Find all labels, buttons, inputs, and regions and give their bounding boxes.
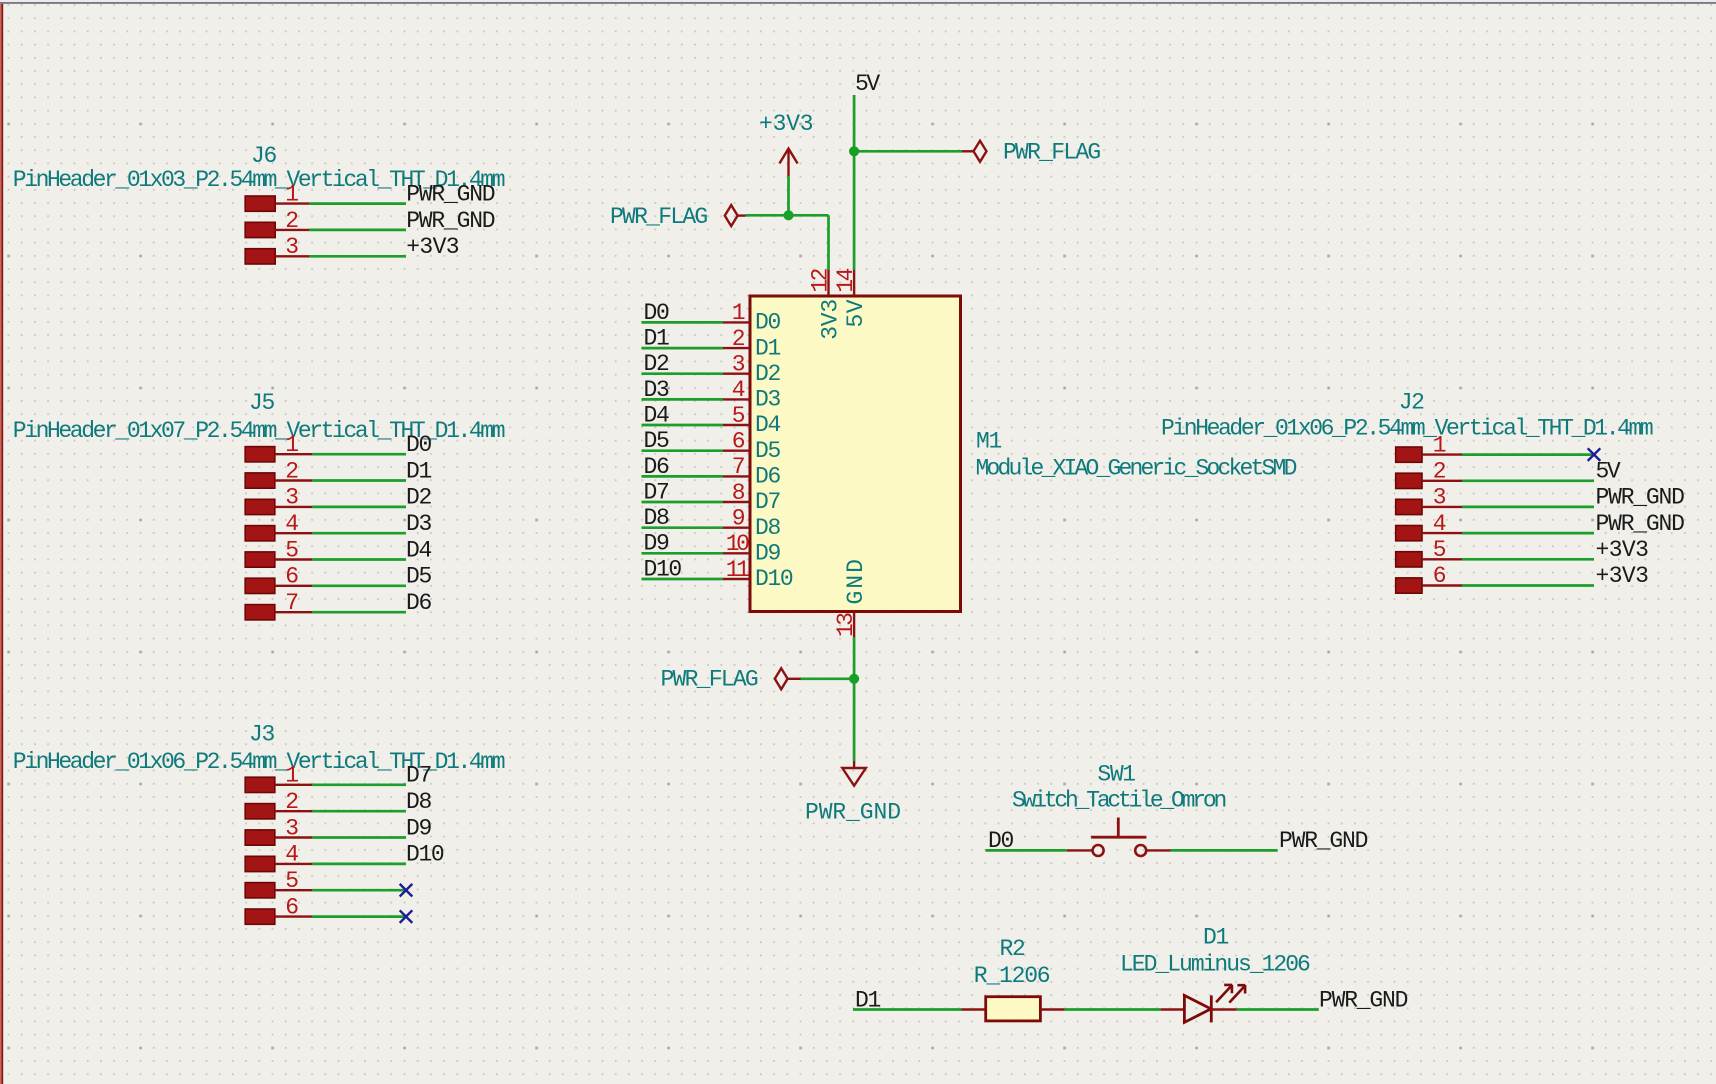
no-connect X on J3 pin 5 [400,884,413,897]
J6 pin 2 body pad [245,222,275,237]
svg-text:+3V3: +3V3 [1596,563,1649,589]
wire +3V3 to PWR_FLAG [746,214,789,217]
svg-text:2: 2 [285,789,298,815]
wire from J3 pin 5 [312,889,406,892]
sheet top border line [0,2,1716,4]
svg-text:4: 4 [285,511,298,537]
svg-text:13: 13 [833,613,859,637]
M1 pin 6 [723,450,750,452]
+3V3 symbol stem [787,149,789,176]
wire D1 to M1 pin 2 [642,347,724,350]
wire D10 to M1 pin 11 [642,578,724,581]
J5 pin 4 body pad [245,526,275,541]
J5 pin 6 stub [275,585,312,587]
J2 pin 4 stub [1422,532,1462,534]
svg-text:5: 5 [1433,537,1446,563]
wire from J6 pin 2 [309,229,406,232]
PWR_FLAG pin (right) [962,150,974,152]
wire 5V vertical to M1 pin 14 [853,95,856,270]
svg-text:D9: D9 [406,815,431,841]
LED D1 [1065,925,1408,1023]
svg-text:D0: D0 [755,310,780,336]
M1 pin 4 [723,398,750,400]
J6 pin 2 stub [275,229,309,231]
J5 pin 2 body pad [245,473,275,488]
svg-text:3: 3 [1433,485,1446,511]
svg-text:6: 6 [285,564,298,590]
J6 pin 3 stub [275,255,309,257]
M1 pin 11 [723,578,750,580]
wire from J3 pin 2 [312,810,406,813]
J6 pin 3 body pad [245,249,275,264]
D1 triangle [1184,995,1211,1022]
module M1 Module_XIAO_Generic_SocketSMD body [750,296,961,612]
junction on GND net [849,674,859,684]
connector J3 [13,722,505,925]
junction on 5V net [849,146,859,156]
SW1 pin 2 [1146,849,1170,851]
D1 cathode bar [1210,995,1213,1022]
wire from J2 pin 5 [1462,558,1594,561]
svg-text:3: 3 [732,352,745,378]
wire down into M1 pin 12 [827,215,830,270]
svg-text:PinHeader_01x06_P2.54mm_Vertic: PinHeader_01x06_P2.54mm_Vertical_THT_D1.… [13,749,505,775]
sheet top outer margin [0,0,1716,2]
J2 pin 6 body pad [1396,578,1422,593]
wire GND from M1 pin 13 [853,637,856,679]
wire from J3 pin 4 [312,863,406,866]
J2 pin 1 body pad [1396,447,1422,462]
M1 pin 12 [827,270,829,296]
resistor R2 [853,936,1065,1021]
svg-text:PWR_GND: PWR_GND [1279,828,1368,854]
svg-text:D0: D0 [406,432,431,458]
M1 pin 10 [723,552,750,554]
ground symbol PWR_GND [842,768,866,786]
svg-text:8: 8 [732,480,745,506]
svg-text:J5: J5 [249,390,274,416]
M1 pin 5 [723,424,750,426]
wire from J5 pin 6 [312,584,406,587]
M1 pin 7 [723,475,750,477]
J5 pin 1 stub [275,453,312,455]
svg-text:D1: D1 [755,335,780,361]
J3 pin 1 body pad [245,777,275,792]
J3 pin 4 stub [275,863,312,865]
svg-text:1: 1 [732,300,745,326]
J2 pin 1 stub [1422,453,1462,455]
M1 pin 1 [723,321,750,323]
svg-text:5: 5 [732,403,745,429]
J3 pin 2 stub [275,810,312,812]
svg-text:6: 6 [732,429,745,455]
svg-text:2: 2 [285,458,298,484]
J3 pin 2 body pad [245,804,275,819]
svg-text:4: 4 [1433,511,1446,537]
svg-text:5: 5 [285,537,298,563]
svg-text:PWR_GND: PWR_GND [406,181,495,207]
power flag PWR_FLAG (5V net) diamond [974,141,987,162]
svg-text:+3V3: +3V3 [759,111,813,137]
J2 pin 5 body pad [1396,552,1422,567]
svg-text:J2: J2 [1399,390,1424,416]
svg-text:7: 7 [285,590,297,616]
svg-text:5V: 5V [1596,459,1621,485]
wire from J5 pin 4 [312,532,406,535]
svg-text:9: 9 [732,506,745,532]
wire from J2 pin 2 [1462,479,1594,482]
svg-text:D3: D3 [755,387,780,413]
wire SW1 to PWR_GND [1171,849,1278,852]
svg-text:4: 4 [285,842,298,868]
svg-text:11: 11 [726,557,749,583]
M1 pin 3 [723,373,750,375]
wire 5V to PWR_FLAG [854,150,962,153]
M1 pin 2 [723,347,750,349]
svg-text:D5: D5 [406,564,431,590]
wire D2 to M1 pin 3 [642,372,724,375]
svg-text:PWR_GND: PWR_GND [805,800,901,826]
svg-text:PinHeader_01x06_P2.54mm_Vertic: PinHeader_01x06_P2.54mm_Vertical_THT_D1.… [1161,416,1653,442]
junction on +3V3 net [783,210,793,220]
svg-text:PWR_FLAG: PWR_FLAG [610,204,707,230]
svg-text:3: 3 [285,815,298,841]
R2 pin 1 [962,1008,986,1010]
svg-text:D7: D7 [406,763,431,789]
J3 pin 6 body pad [245,909,275,924]
D1 emission arrow 1 [1216,985,1232,1003]
svg-text:2: 2 [285,208,298,234]
D1 anode pin [1161,1008,1185,1010]
svg-text:M1: M1 [976,429,1001,455]
svg-text:5V: 5V [855,71,880,97]
wire from J6 pin 3 [309,255,406,258]
svg-text:D5: D5 [755,438,780,464]
J6 pin 1 stub [275,202,309,204]
J3 pin 3 stub [275,836,312,838]
wire D6 to M1 pin 7 [642,475,724,478]
svg-text:PWR_FLAG: PWR_FLAG [1003,140,1100,166]
svg-text:D8: D8 [406,789,431,815]
svg-text:D1: D1 [1203,925,1228,951]
svg-text:5: 5 [285,868,298,894]
svg-text:2: 2 [1433,459,1446,485]
svg-text:4: 4 [732,377,745,403]
wire D7 to M1 pin 8 [642,501,724,504]
M1 pin 14 [853,270,855,296]
R2 body [986,997,1041,1021]
svg-text:D9: D9 [755,541,780,567]
svg-text:D3: D3 [406,511,431,537]
wire from J5 pin 1 [312,453,406,456]
J2 pin 6 stub [1422,584,1462,586]
svg-text:6: 6 [285,894,298,920]
connector J2 [1161,390,1653,594]
J5 pin 5 body pad [245,552,275,567]
svg-text:10: 10 [726,531,749,557]
PWR_FLAG pin (top left) [738,214,746,216]
wire from J2 pin 6 [1462,584,1594,587]
J3 pin 5 stub [275,889,312,891]
wire D1 to PWR_GND [1237,1008,1319,1011]
svg-text:PWR_GND: PWR_GND [406,208,495,234]
svg-text:SW1: SW1 [1097,762,1135,788]
M1 pin 9 [723,527,750,529]
wire D1 to R2 [853,1008,962,1011]
wire D9 to M1 pin 10 [642,552,724,555]
svg-text:R_1206: R_1206 [974,963,1050,989]
wire D8 to M1 pin 9 [642,526,724,529]
J3 pin 5 body pad [245,883,275,898]
M1 pin 8 [723,501,750,503]
wire GND to PWR_FLAG [801,677,855,680]
svg-text:D10: D10 [755,566,793,592]
svg-text:3V3: 3V3 [817,299,843,340]
J6 pin 1 body pad [245,196,275,211]
J3 pin 3 body pad [245,830,275,845]
wire from J6 pin 1 [309,202,406,205]
J5 pin 1 body pad [245,447,275,462]
SW1 actuator bar [1091,836,1146,839]
switch SW1 [986,762,1368,857]
svg-text:D6: D6 [755,464,780,490]
D1 emission arrow 2 [1229,985,1245,1003]
J5 pin 2 stub [275,479,312,481]
svg-text:3: 3 [285,234,298,260]
wire from J2 pin 1 [1462,453,1594,456]
M1 pin 13 [853,612,855,638]
J3 pin 6 stub [275,915,312,917]
SW1 pin 1 [1067,849,1092,851]
SW1 contact circle 2 [1135,845,1146,856]
wire D4 to M1 pin 5 [642,424,724,427]
wire R2 to D1 [1065,1008,1161,1011]
wire from J5 pin 7 [312,611,406,614]
ground symbol stem [853,761,855,768]
connector J6 [13,143,505,264]
SW1 contact circle 1 [1093,845,1104,856]
wire D5 to M1 pin 6 [642,449,724,452]
svg-text:PWR_GND: PWR_GND [1596,485,1685,511]
J2 pin 3 body pad [1396,499,1422,514]
svg-text:D4: D4 [406,537,431,563]
svg-text:PinHeader_01x07_P2.54mm_Vertic: PinHeader_01x07_P2.54mm_Vertical_THT_D1.… [13,418,505,444]
wire from J3 pin 3 [312,836,406,839]
wire from J3 pin 6 [312,915,406,918]
J2 pin 2 body pad [1396,473,1422,488]
svg-text:14: 14 [833,268,859,292]
J5 pin 6 body pad [245,578,275,593]
wire +3V3 down [787,176,790,215]
svg-text:Switch_Tactile_Omron: Switch_Tactile_Omron [1012,788,1225,814]
J2 pin 3 stub [1422,506,1462,508]
J3 pin 4 body pad [245,856,275,871]
wire from J2 pin 4 [1462,532,1594,535]
connector J5 [13,390,505,620]
SW1 actuator stem [1117,818,1120,838]
svg-text:3: 3 [285,485,298,511]
svg-text:D4: D4 [755,412,780,438]
svg-text:+3V3: +3V3 [1596,537,1649,563]
svg-text:D7: D7 [755,489,780,515]
R2 pin 2 [1040,1008,1064,1010]
svg-text:LED_Luminus_1206: LED_Luminus_1206 [1120,952,1310,978]
svg-text:Module_XIAO_Generic_SocketSMD: Module_XIAO_Generic_SocketSMD [976,456,1297,482]
svg-text:D2: D2 [755,361,780,387]
svg-text:1: 1 [285,432,298,458]
J2 pin 2 stub [1422,480,1462,482]
J3 pin 1 stub [275,784,312,786]
svg-text:GND: GND [843,557,869,604]
power flag PWR_FLAG (GND net) diamond [775,668,788,689]
wire from J5 pin 3 [312,506,406,509]
svg-text:1: 1 [1433,432,1446,458]
svg-text:7: 7 [732,454,744,480]
J5 pin 7 stub [275,611,312,613]
wire from J2 pin 3 [1462,506,1594,509]
PWR_FLAG pin (GND) [788,678,801,680]
svg-text:D10: D10 [406,842,444,868]
sheet left border (red) [0,4,1,1084]
wire from J5 pin 2 [312,479,406,482]
wire from J3 pin 1 [312,783,406,786]
no-connect X on J2 pin 1 [1588,448,1601,461]
wire D0 to M1 pin 1 [642,321,724,324]
wire from J5 pin 5 [312,558,406,561]
svg-text:PWR_GND: PWR_GND [1319,987,1408,1013]
svg-text:D1: D1 [406,458,431,484]
svg-text:J6: J6 [251,143,276,169]
J2 pin 4 body pad [1396,526,1422,541]
wire D0 to SW1 [986,849,1067,852]
svg-text:12: 12 [808,268,834,292]
wire GND down to ground symbol [853,679,856,761]
D1 cathode pin [1211,1008,1237,1010]
wire +3V3 toward M1 pin 12 [789,214,829,217]
svg-text:J3: J3 [249,722,274,748]
svg-text:D2: D2 [406,485,431,511]
no-connect X on J3 pin 6 [400,910,413,923]
J5 pin 5 stub [275,558,312,560]
J5 pin 7 body pad [245,605,275,620]
svg-text:+3V3: +3V3 [406,234,459,260]
J2 pin 5 stub [1422,558,1462,560]
svg-text:1: 1 [285,763,298,789]
power symbol +3V3 arrow [779,149,797,164]
svg-text:D6: D6 [406,590,431,616]
J5 pin 4 stub [275,532,312,534]
J5 pin 3 body pad [245,499,275,514]
svg-text:6: 6 [1433,563,1446,589]
svg-text:PWR_GND: PWR_GND [1596,511,1685,537]
power flag PWR_FLAG (+3V3 net) diamond [725,205,738,226]
svg-text:D8: D8 [755,515,780,541]
svg-text:2: 2 [732,326,745,352]
wire D3 to M1 pin 4 [642,398,724,401]
svg-text:PWR_FLAG: PWR_FLAG [661,667,758,693]
J5 pin 3 stub [275,506,312,508]
svg-text:5V: 5V [843,299,869,327]
svg-text:1: 1 [285,181,298,207]
svg-text:R2: R2 [1000,936,1025,962]
